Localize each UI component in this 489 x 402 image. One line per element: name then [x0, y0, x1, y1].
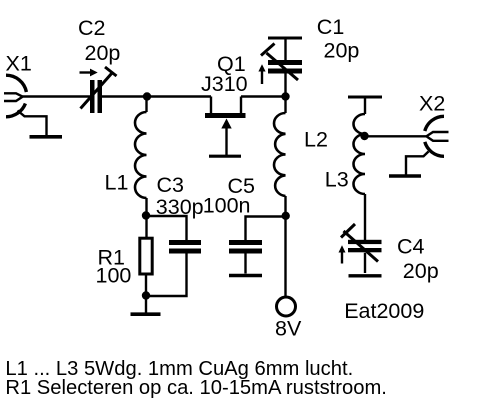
- supply terminal 8V: [277, 297, 296, 316]
- wire C3 top branch: [146, 216, 187, 240]
- capacitor C2 (trimmer): [80, 67, 117, 113]
- connector X2: [425, 116, 449, 156]
- svg-text:L1: L1: [105, 170, 129, 194]
- svg-text:X2: X2: [419, 92, 445, 116]
- svg-text:X1: X1: [6, 52, 32, 76]
- wire C5 branch: [246, 217, 286, 241]
- node junction L2/C5: [282, 212, 290, 220]
- capacitor C1 (trimmer): [258, 38, 302, 97]
- inductor L1: [135, 97, 147, 238]
- node junction R1/C3 bottom: [142, 291, 150, 299]
- svg-text:100: 100: [96, 263, 132, 287]
- wire C3 bottom branch: [146, 254, 187, 297]
- svg-text:C4: C4: [397, 235, 425, 259]
- capacitor C4 (trimmer): [339, 224, 382, 273]
- svg-text:330p: 330p: [156, 195, 204, 219]
- terminal stub above L3: [348, 97, 382, 114]
- wire C2 to Q1 drain: [102, 95, 211, 97]
- wire Q1 source to C1/L2 node: [241, 95, 286, 97]
- svg-text:J310: J310: [201, 72, 248, 96]
- svg-text:L3: L3: [325, 168, 349, 192]
- resistor R1: [140, 238, 152, 274]
- ground (C4): [349, 274, 382, 277]
- ground (C5): [229, 274, 262, 277]
- svg-text:100n: 100n: [203, 194, 251, 218]
- ground (X2): [389, 152, 429, 177]
- svg-text:20p: 20p: [324, 39, 360, 63]
- wire X1 to C2: [23, 95, 91, 97]
- node junction wire/L1: [143, 92, 151, 100]
- inductor L2: [274, 97, 286, 297]
- svg-text:R1 Selecteren op ca. 10-15mA r: R1 Selecteren op ca. 10-15mA ruststroom.: [5, 377, 387, 399]
- svg-text:L2: L2: [304, 128, 328, 152]
- node junction L1/R1/C3: [142, 211, 150, 219]
- node junction L3 tap: [360, 132, 368, 140]
- svg-text:C3: C3: [157, 173, 185, 197]
- ground (R1): [131, 312, 161, 316]
- ground (X1): [18, 111, 63, 137]
- transistor Q1 (J310 JFET): [205, 97, 246, 156]
- svg-text:8V: 8V: [275, 317, 302, 341]
- wire R1 to ground: [145, 275, 147, 313]
- svg-text:20p: 20p: [85, 41, 121, 65]
- ground (Q1 gate): [209, 155, 241, 158]
- svg-text:20p: 20p: [403, 259, 439, 283]
- capacitor C3: [169, 240, 201, 254]
- wire L3 tap to X2: [365, 135, 428, 137]
- svg-text:Eat2009: Eat2009: [344, 299, 424, 323]
- connector X1: [4, 75, 26, 117]
- node junction C1/L2: [281, 92, 289, 100]
- svg-text:C2: C2: [78, 16, 105, 40]
- inductor L3: [354, 114, 365, 240]
- capacitor C5: [229, 240, 262, 274]
- svg-text:C1: C1: [317, 15, 344, 39]
